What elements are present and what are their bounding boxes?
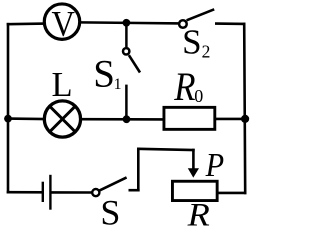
switch S2 blade bbox=[187, 9, 215, 20]
rheostat R box bbox=[172, 181, 217, 200]
wire top right (S2 to corner) bbox=[216, 22, 244, 25]
wire top middle (voltmeter to S2) bbox=[80, 22, 180, 23]
switch S1 blade bbox=[129, 55, 140, 72]
voltmeter V circle bbox=[44, 4, 79, 39]
wire middle right (R0 to right vertical) bbox=[216, 118, 245, 121]
wire switch S right stub bbox=[130, 189, 139, 192]
wire riser vertical up bbox=[137, 149, 140, 190]
wire riser horizontal to arrow bbox=[138, 149, 193, 150]
switch S blade bbox=[99, 177, 127, 190]
wire top-left horizontal bbox=[8, 22, 44, 25]
wire arrow shaft down to slider P bbox=[192, 150, 195, 171]
wire middle left (node to lamp) bbox=[8, 117, 45, 120]
battery negative plate (short) bbox=[42, 182, 44, 202]
wire middle (lamp to R0) bbox=[80, 118, 164, 121]
battery positive plate (long) bbox=[49, 175, 51, 210]
svg-text:S: S bbox=[100, 192, 120, 227]
node junction middle (S1 bottom) bbox=[123, 115, 131, 123]
svg-text:P: P bbox=[205, 145, 224, 183]
switch S pivot circle bbox=[92, 189, 99, 196]
lamp L cross bbox=[50, 106, 76, 132]
wire bottom-right connector to rheostat bbox=[219, 192, 246, 195]
switch S1 upper stub bbox=[125, 23, 128, 47]
switch S1 lower stub bbox=[125, 85, 128, 120]
wire bottom left (corner to battery) bbox=[8, 191, 42, 194]
svg-text:S: S bbox=[93, 52, 115, 95]
switch S2 pivot circle bbox=[179, 20, 187, 28]
svg-text:R: R bbox=[173, 66, 195, 110]
switch S1 pivot circle bbox=[123, 48, 129, 54]
slider arrow P head bbox=[188, 168, 199, 177]
svg-text:0: 0 bbox=[194, 86, 203, 106]
wire battery to switch S bbox=[52, 191, 93, 194]
lamp L circle bbox=[44, 101, 80, 137]
svg-text:S: S bbox=[182, 23, 201, 62]
svg-text:2: 2 bbox=[202, 42, 211, 62]
node junction middle-left bbox=[4, 115, 12, 123]
wire left vertical bbox=[7, 24, 10, 192]
node junction top (S1 top) bbox=[123, 19, 131, 27]
node junction middle-right bbox=[241, 115, 249, 123]
svg-text:1: 1 bbox=[114, 76, 122, 93]
svg-text:R: R bbox=[187, 196, 210, 227]
svg-text:V: V bbox=[52, 4, 76, 44]
resistor R0 box bbox=[164, 107, 215, 129]
wire right vertical bbox=[244, 24, 245, 193]
svg-text:L: L bbox=[52, 66, 73, 104]
